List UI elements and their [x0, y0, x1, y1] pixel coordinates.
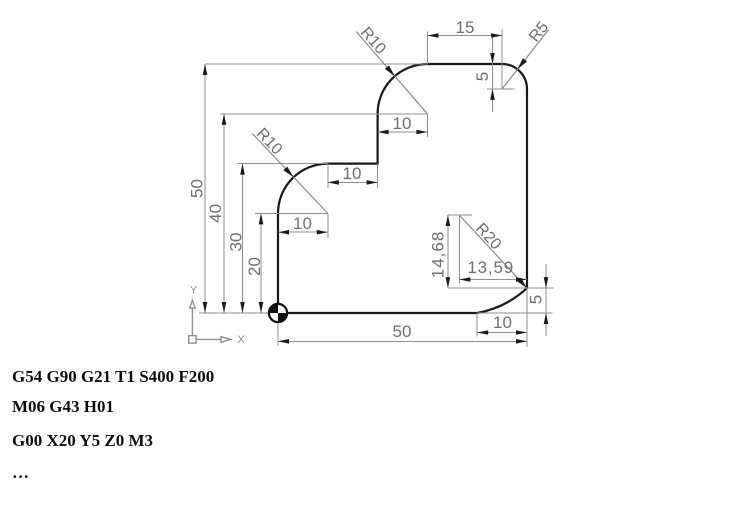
svg-text:10: 10 — [293, 214, 312, 233]
dim texts — [188, 18, 553, 341]
svg-text:13,59: 13,59 — [467, 258, 514, 277]
ext line y=64 (height 50) — [205, 63, 427, 65]
arrow dim13,59 left — [459, 277, 470, 282]
leader R5 — [502, 30, 548, 89]
svg-text:40: 40 — [206, 204, 225, 223]
arrow dim20 top — [259, 213, 264, 224]
X axis line — [196, 338, 221, 340]
ext line y=213.4 (height 20) — [255, 212, 328, 214]
arrow dim50-bottom left — [278, 339, 289, 344]
ext line x=477 bottom — [476, 313, 478, 337]
arrow dim5-bottomright lower — [544, 313, 549, 324]
arrow dim10-top left — [378, 130, 389, 135]
svg-text:X: X — [237, 334, 245, 346]
dim line 13,59 — [459, 279, 527, 281]
svg-text:10: 10 — [343, 164, 362, 183]
ext line x=502 top — [501, 29, 503, 89]
arrow dim30 top — [240, 164, 245, 175]
G-code ellipsis line — [12, 463, 29, 483]
svg-text:14,68: 14,68 — [429, 231, 448, 279]
X axis arrowhead — [221, 337, 231, 343]
arrow leader R10 lower — [283, 167, 293, 178]
Y axis line — [191, 308, 193, 336]
svg-text:10: 10 — [393, 114, 412, 133]
svg-text:10: 10 — [493, 313, 512, 332]
leader R10 upper — [356, 32, 427, 114]
svg-text:Y: Y — [190, 285, 198, 297]
ext line x=328 step1 — [327, 213, 329, 238]
arrow dim5-topright upper — [490, 53, 495, 64]
arrow dim14,68 top — [446, 215, 451, 226]
arrowheads — [203, 33, 549, 343]
dim line 14,68 — [447, 215, 449, 288]
arrow dim15 right — [491, 33, 502, 38]
ext line y=163.6 (height 30) — [237, 163, 328, 165]
dim line 50 left — [204, 64, 206, 313]
dim line 50 bottom — [278, 340, 527, 342]
svg-text:20: 20 — [245, 257, 264, 276]
svg-text:15: 15 — [456, 18, 475, 37]
svg-text:5: 5 — [527, 295, 546, 304]
arrow dim40 top — [222, 114, 227, 125]
ext line y=113.8 (height 40) — [220, 113, 427, 115]
arrow dim10-mid left — [328, 180, 339, 185]
arrow leader R20 — [517, 278, 527, 289]
svg-text:30: 30 — [227, 233, 246, 252]
baseline ext right — [477, 312, 552, 314]
ext line x=527 bottom — [526, 288, 528, 347]
arrow dim30 bottom — [240, 302, 245, 313]
arrow dim50 bottom — [203, 302, 208, 313]
ext line x=378 step2 right — [377, 164, 379, 188]
ext line x=278 bottom — [277, 323, 279, 346]
svg-text:R5: R5 — [526, 19, 552, 46]
ext line y=215 (R20 center) — [448, 214, 472, 216]
axis icon square — [189, 336, 196, 343]
arrow dim10-bottom right — [516, 330, 527, 335]
Y axis arrowhead — [190, 300, 196, 308]
arrow dim40 bottom — [222, 302, 227, 313]
arrow dim10-top right — [416, 130, 427, 135]
dim line 30 left — [242, 164, 244, 313]
leader R20 — [459, 215, 527, 288]
dim line 10 step2 — [328, 181, 378, 183]
arrow leader R5 — [518, 58, 528, 69]
baseline ext left — [199, 312, 278, 314]
dim line 10 step1 — [278, 231, 328, 233]
arrow dim10-bottom left — [477, 330, 488, 335]
ext line y=288.1 — [448, 287, 554, 289]
dim 5 top-right line — [492, 34, 494, 112]
arrow dim14,68 bottom — [446, 277, 451, 288]
arrow dim10-mid right — [367, 180, 378, 185]
origin quadrant top-left — [269, 304, 278, 313]
svg-text:50: 50 — [188, 179, 207, 198]
dim 5 bottom-right line — [545, 264, 547, 336]
part outline — [278, 64, 527, 313]
arrow dim50 top — [203, 64, 208, 75]
svg-text:5: 5 — [473, 72, 492, 81]
ext line x=328 step2 left — [327, 164, 329, 188]
G-code line 1 — [12, 367, 214, 387]
arrow dim10-low left — [278, 230, 289, 235]
svg-text:R10: R10 — [357, 24, 389, 57]
arrow dim10-low right — [317, 230, 328, 235]
svg-text:R10: R10 — [253, 125, 286, 158]
G-code line 2 — [12, 397, 114, 417]
G-code line 3 — [12, 431, 153, 451]
arrow leader R10 upper — [385, 65, 395, 76]
svg-text:50: 50 — [393, 322, 412, 341]
arrow dim15 left — [427, 33, 438, 38]
leader R10 lower — [252, 134, 327, 214]
dim line 40 left — [223, 114, 225, 313]
arrow dim5-topright lower — [490, 89, 495, 100]
ext line x=427 step3 — [426, 114, 428, 137]
dim line 10 bottom — [477, 332, 527, 334]
dim line 15 — [427, 35, 502, 37]
ext line x=459 R20 center — [458, 215, 460, 284]
dim line 20 left — [260, 213, 262, 313]
ext line x=427 top — [426, 32, 428, 64]
arrow dim50-bottom right — [516, 339, 527, 344]
origin symbol — [269, 304, 287, 322]
svg-text:R20: R20 — [472, 220, 504, 253]
arrow dim5-bottomright upper — [544, 277, 549, 288]
dim line 10 step3 — [378, 131, 428, 133]
arrow dim13,59 right — [516, 277, 527, 282]
arrow dim20 bottom — [259, 302, 264, 313]
origin quadrant bottom-right — [278, 313, 287, 322]
axis icon — [189, 300, 231, 343]
ext line y=88.9 (R5 center) — [487, 88, 515, 90]
origin symbol circle — [269, 304, 287, 322]
